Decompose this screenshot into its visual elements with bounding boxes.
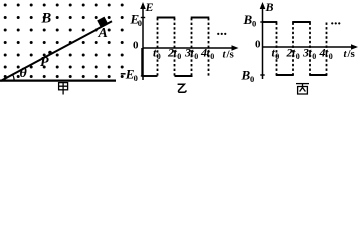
B x-axis: [263, 46, 357, 48]
svg-text:/s: /s: [226, 49, 235, 61]
svg-text:E: E: [145, 0, 154, 14]
svg-text:0: 0: [194, 52, 198, 61]
angle arc: [12, 74, 14, 80]
label -E0: [121, 73, 126, 75]
svg-text:θ: θ: [20, 66, 28, 81]
B tick labels t0 2t0 3t0 4t0: [272, 46, 330, 60]
svg-text:0: 0: [252, 18, 256, 28]
point P dot: [48, 51, 52, 55]
svg-text:...: ...: [217, 24, 228, 39]
B waveform solid segments: [263, 22, 328, 75]
svg-text:0: 0: [312, 52, 316, 61]
block A on incline: [97, 17, 108, 27]
E y-axis: [142, 4, 144, 80]
svg-text:B: B: [243, 12, 253, 27]
svg-text:0: 0: [138, 18, 142, 28]
svg-text:0: 0: [329, 52, 333, 61]
svg-text:0: 0: [250, 74, 254, 84]
B waveform dashed verticals: [277, 23, 327, 76]
E waveform dashed verticals: [158, 18, 209, 76]
svg-text:/s: /s: [347, 48, 356, 60]
svg-text:P: P: [40, 55, 49, 70]
B0 top tick: [260, 21, 264, 23]
svg-text:0: 0: [177, 52, 181, 61]
E tick labels t0 2t0 3t0 4t0: [153, 46, 211, 60]
B y-axis: [262, 4, 264, 79]
E x-axis: [143, 47, 236, 49]
svg-text:0: 0: [296, 52, 300, 61]
svg-text:B: B: [41, 11, 52, 27]
caption yi: [178, 84, 187, 92]
B0 bottom tick: [260, 74, 264, 76]
svg-text:B: B: [241, 68, 251, 83]
svg-text:B: B: [265, 0, 274, 14]
svg-text:...: ...: [331, 14, 342, 29]
svg-text:0: 0: [157, 52, 161, 61]
E waveform solid segments: [142, 18, 209, 77]
ground line: [0, 79, 116, 81]
incline line: [1, 21, 113, 81]
svg-text:0: 0: [133, 40, 139, 52]
svg-text:0: 0: [275, 52, 279, 61]
caption jia: [59, 83, 68, 95]
caption bing: [296, 84, 309, 94]
-E0 tick: [141, 75, 145, 77]
svg-text:A: A: [98, 26, 108, 41]
svg-text:0: 0: [210, 52, 214, 61]
E0 tick: [141, 17, 145, 19]
svg-text:0: 0: [255, 39, 261, 51]
dot grid (magnetic field B region, out of page): [4, 4, 124, 79]
svg-text:0: 0: [134, 73, 138, 83]
